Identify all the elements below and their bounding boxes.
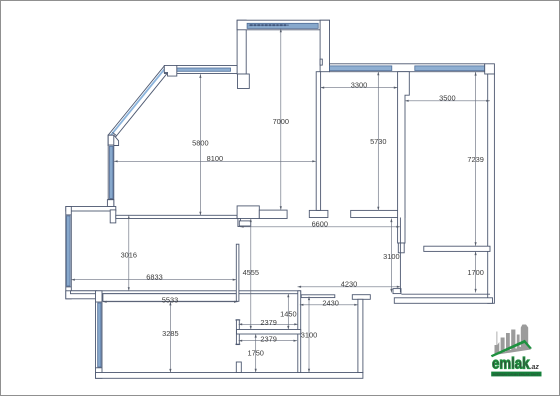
wall balcony left: [237, 20, 246, 74]
svg-text:3016: 3016: [121, 251, 137, 260]
notch block below alcove top right: [110, 210, 116, 223]
svg-text:5800: 5800: [192, 138, 208, 147]
svg-text:5730: 5730: [370, 137, 386, 146]
dimension 6600: [240, 220, 400, 229]
svg-text:.az: .az: [530, 364, 540, 371]
window top-right B: [415, 66, 485, 71]
wall top-left horizontal: [164, 66, 237, 74]
wall corridor thick: [237, 206, 259, 219]
wall corridor T-foot: [309, 210, 328, 217]
wall living-room right vertical: [316, 72, 320, 211]
wall corridor right bar: [351, 210, 405, 217]
svg-text:1450: 1450: [280, 310, 296, 319]
svg-text:2379: 2379: [260, 334, 276, 343]
svg-text:emlak: emlak: [492, 355, 530, 372]
pillar below balcony left wall: [238, 74, 250, 89]
wall balcony top: [237, 20, 329, 30]
dimension 2430: [300, 298, 358, 307]
dimension 5533: [103, 295, 238, 304]
dimension 4555: [243, 219, 259, 330]
logo emlak.az: [491, 325, 542, 377]
wall mid vertical upper: [236, 244, 239, 301]
pillar small right: [393, 289, 401, 294]
wall diagonal: [108, 65, 171, 139]
corner block top-right: [485, 64, 495, 74]
wall alcove bottom thick part: [66, 291, 97, 299]
dimension 3300: [321, 81, 398, 90]
dimension 5800: [192, 74, 208, 215]
wall corridor mid: [259, 210, 287, 218]
wall right outer: [488, 74, 495, 303]
dimension 2379 lower: [239, 334, 298, 343]
dimension 4230: [298, 280, 401, 289]
svg-text:4555: 4555: [243, 268, 259, 277]
svg-text:1700: 1700: [467, 268, 483, 277]
svg-text:8100: 8100: [207, 154, 223, 163]
svg-text:7239: 7239: [467, 155, 483, 164]
wall hall band: [71, 291, 301, 294]
corner block top-left: [164, 65, 177, 76]
window lower-left room: [96, 302, 103, 368]
svg-text:2430: 2430: [322, 298, 338, 307]
wall stub above bottom wall: [236, 362, 241, 373]
dimension 5730: [370, 72, 386, 211]
dimension 7239: [467, 72, 483, 246]
wall divider right rooms: [398, 72, 410, 243]
dimension 7000: [273, 29, 289, 210]
svg-text:3285: 3285: [162, 329, 178, 338]
svg-text:6600: 6600: [312, 220, 328, 229]
wall mid T cap: [352, 295, 370, 300]
svg-text:6833: 6833: [146, 273, 162, 282]
window left vertical: [108, 145, 114, 199]
svg-text:3500: 3500: [439, 94, 455, 103]
wall divider end cap: [398, 243, 404, 253]
wall small top segment: [301, 295, 335, 298]
dimension 3100 right: [301, 297, 317, 373]
wall line bottom-right inner: [401, 293, 490, 295]
dimension 2379 upper: [239, 318, 298, 327]
corner block left upper: [108, 135, 119, 145]
dimension 1450: [280, 294, 296, 330]
wall balcony right: [320, 20, 329, 71]
dimension 3016: [121, 215, 137, 290]
wall top-right horizontal: [330, 64, 485, 72]
window balcony top band: [247, 23, 318, 28]
window diagonal end caps: [112, 69, 170, 136]
wall corridor thin: [116, 215, 237, 218]
wall bath left vertical: [298, 291, 301, 373]
wall alcove top: [66, 207, 116, 212]
wall mid vertical lower: [358, 299, 363, 372]
wall lower-left room left: [96, 291, 103, 379]
door jamb mid vertical: [235, 320, 240, 345]
wall bottom-right band: [394, 298, 492, 304]
svg-text:7000: 7000: [273, 117, 289, 126]
wall bath horizontal: [237, 330, 301, 335]
wall bottom main: [96, 373, 363, 379]
dimension 3100 left: [383, 219, 399, 293]
corner block left lower: [107, 200, 113, 207]
wall alcove left: [66, 207, 72, 299]
svg-text:AZERBAYCANIN EMLAK SAYTI: AZERBAYCANIN EMLAK SAYTI: [493, 372, 540, 376]
svg-text:4230: 4230: [341, 280, 357, 289]
wall left vertical: [108, 135, 114, 206]
dimension 1750: [247, 334, 263, 372]
wall lower-left room top: [103, 294, 238, 302]
door jamb stub below corridor: [238, 219, 251, 227]
window top-left: [177, 68, 231, 71]
window alcove left: [66, 215, 72, 287]
wall entry band right: [424, 246, 490, 251]
svg-text:5533: 5533: [162, 295, 178, 304]
svg-text:3300: 3300: [351, 81, 367, 90]
dimension 6833: [71, 273, 236, 282]
dimension 8100: [114, 154, 316, 163]
step balcony right inner: [320, 59, 322, 65]
svg-text:3100: 3100: [383, 252, 399, 261]
svg-text:1750: 1750: [247, 349, 263, 358]
window top-right A: [330, 66, 392, 71]
svg-text:3100: 3100: [301, 330, 317, 339]
wall line right of corridor: [399, 218, 401, 293]
dimension 3500: [405, 94, 490, 103]
svg-text:2379: 2379: [260, 318, 276, 327]
dimension 3285: [162, 302, 178, 373]
dimension 1700: [467, 252, 483, 293]
